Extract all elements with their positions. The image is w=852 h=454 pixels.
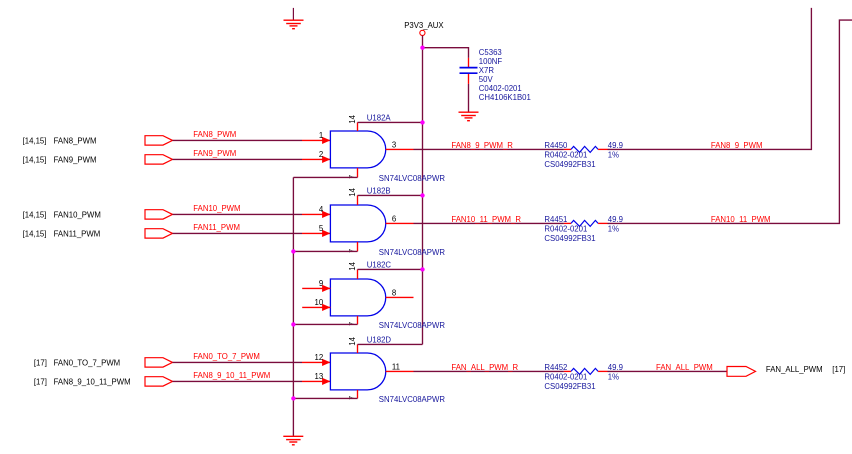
junction P3V3 rail / U182C pin14 <box>420 267 424 271</box>
svg-text:FAN8_9_10_11_PWM: FAN8_9_10_11_PWM <box>193 371 270 380</box>
svg-text:FAN10_PWM: FAN10_PWM <box>193 204 240 213</box>
junction P3V3 rail / U182A pin14 <box>420 120 424 124</box>
wire top ground stub <box>292 8 294 21</box>
svg-text:C0402-0201: C0402-0201 <box>479 84 522 93</box>
svg-text:FAN8_9_PWM: FAN8_9_PWM <box>711 141 763 150</box>
svg-text:8: 8 <box>392 288 396 297</box>
U182A output pin number <box>392 140 396 149</box>
junction P3V3 rail / U182B pin14 <box>420 193 424 197</box>
svg-text:P3V3_AUX: P3V3_AUX <box>404 21 444 30</box>
wire U182B pin 7 to ground bus <box>293 250 357 252</box>
svg-text:FAN8_PWM: FAN8_PWM <box>54 136 97 145</box>
U182B pin 7 number <box>349 249 356 253</box>
wire U182D pin 7 to ground bus <box>293 397 357 399</box>
svg-text:11: 11 <box>392 362 400 371</box>
svg-text:FAN_ALL_PWM: FAN_ALL_PWM <box>656 363 713 372</box>
resistor R4452 <box>564 368 608 374</box>
svg-text:FAN8_9_10_11_PWM: FAN8_9_10_11_PWM <box>54 377 131 386</box>
svg-text:FAN0_TO_7_PWM: FAN0_TO_7_PWM <box>54 358 121 367</box>
svg-text:49.9: 49.9 <box>608 215 623 224</box>
svg-text:49.9: 49.9 <box>608 141 623 150</box>
svg-text:[17]: [17] <box>34 377 47 386</box>
junction ground bus / U182C pin7 <box>291 322 295 326</box>
net label FAN8_9_10_11_PWM <box>193 371 270 380</box>
U182A reference label <box>367 114 392 123</box>
wire FAN10_11_PWM to top right edge <box>608 20 852 223</box>
wire FAN8_9_10_11_PWM <box>173 378 331 385</box>
svg-text:C5363: C5363 <box>479 48 502 57</box>
svg-text:R0402-0201: R0402-0201 <box>544 373 587 382</box>
wire U182C pin 14 to P3V3 rail <box>358 268 423 270</box>
U182A input pin numbers <box>319 131 323 159</box>
net label FAN10_PWM <box>193 204 240 213</box>
U182D reference label <box>367 336 392 345</box>
svg-text:CH4106K1B01: CH4106K1B01 <box>479 93 531 102</box>
wire FAN10_11_PWM_R <box>414 222 564 224</box>
junction ground bus / U182D pin7 <box>291 396 295 400</box>
AND gate U182B <box>330 205 385 242</box>
svg-text:[14,15]: [14,15] <box>23 155 47 164</box>
off-page connector FAN10_PWM <box>23 210 173 220</box>
off-page connector FAN0_TO_7_PWM <box>34 358 173 368</box>
U182C output lead <box>386 296 414 298</box>
net label FAN9_PWM <box>193 149 236 158</box>
U182B pin 7 ground stub <box>357 242 359 252</box>
off-page connector FAN9_PWM <box>23 155 173 165</box>
ground bottom <box>283 436 303 445</box>
svg-text:1%: 1% <box>608 225 619 234</box>
U182A part number SN74LVC08APWR <box>379 174 446 183</box>
U182B part number SN74LVC08APWR <box>379 248 446 257</box>
net label FAN11_PWM <box>193 223 240 232</box>
svg-text:SN74LVC08APWR: SN74LVC08APWR <box>379 248 446 257</box>
svg-text:1%: 1% <box>608 151 619 160</box>
net label FAN8_PWM <box>193 130 236 139</box>
wire FAN8_PWM <box>173 137 331 144</box>
net label FAN0_TO_7_PWM <box>193 352 260 361</box>
wire capacitor branch <box>423 48 469 58</box>
U182C pin 14 power stub <box>357 269 359 279</box>
svg-text:U182B: U182B <box>367 187 391 196</box>
ground top <box>284 20 304 29</box>
svg-text:[14,15]: [14,15] <box>23 210 47 219</box>
svg-text:SN74LVC08APWR: SN74LVC08APWR <box>379 395 446 404</box>
wire U182C pin 7 to ground bus <box>293 323 357 325</box>
wire U182B pin 14 to P3V3 rail <box>358 194 423 196</box>
svg-text:FAN9_PWM: FAN9_PWM <box>193 149 236 158</box>
U182C input pin numbers <box>315 279 324 307</box>
svg-text:FAN10_PWM: FAN10_PWM <box>54 210 101 219</box>
off-page connector FAN11_PWM <box>23 229 173 239</box>
U182D input pin numbers <box>315 353 324 381</box>
svg-text:FAN8_PWM: FAN8_PWM <box>193 130 236 139</box>
svg-text:100NF: 100NF <box>479 57 503 66</box>
svg-text:1%: 1% <box>608 373 619 382</box>
svg-text:6: 6 <box>392 214 396 223</box>
svg-text:SN74LVC08APWR: SN74LVC08APWR <box>379 321 446 330</box>
svg-text:3: 3 <box>392 140 396 149</box>
svg-text:2: 2 <box>319 150 323 159</box>
capacitor C5363 <box>460 58 478 84</box>
svg-text:FAN10_11_PWM: FAN10_11_PWM <box>711 215 771 224</box>
AND gate U182A <box>330 131 385 168</box>
svg-text:U182A: U182A <box>367 114 392 123</box>
svg-text:FAN9_PWM: FAN9_PWM <box>54 155 97 164</box>
U182A pin 14 power stub <box>357 122 359 131</box>
svg-text:[17]: [17] <box>832 365 845 374</box>
U182C input stub pin 9 <box>302 285 330 292</box>
net label FAN8_9_PWM_R <box>451 141 513 150</box>
U182C output pin number <box>392 288 396 297</box>
U182C part number SN74LVC08APWR <box>379 321 446 330</box>
resistor R4450 labels <box>544 141 623 169</box>
resistor R4451 <box>564 220 608 226</box>
ground capacitor <box>459 112 479 121</box>
U182C input stub pin 10 <box>302 304 330 311</box>
U182C pin 14 number <box>348 261 357 270</box>
U182B pin 14 power stub <box>357 195 359 205</box>
svg-text:14: 14 <box>348 114 357 123</box>
wire capacitor to ground <box>468 84 470 112</box>
U182D pin 14 power stub <box>357 344 359 353</box>
U182C reference label <box>367 261 392 270</box>
svg-text:14: 14 <box>348 187 357 196</box>
svg-text:12: 12 <box>315 353 324 362</box>
U182A pin 7 ground stub <box>357 168 359 178</box>
svg-text:R4452: R4452 <box>544 363 567 372</box>
svg-text:R0402-0201: R0402-0201 <box>544 151 587 160</box>
wire FAN_ALL_PWM to connector <box>608 370 728 372</box>
U182D pin 7 number <box>349 396 356 400</box>
U182D output pin number <box>392 362 400 371</box>
net label FAN10_11_PWM <box>711 215 771 224</box>
svg-text:CS04992FB31: CS04992FB31 <box>544 160 595 169</box>
svg-text:R0402-0201: R0402-0201 <box>544 225 587 234</box>
svg-text:FAN0_TO_7_PWM: FAN0_TO_7_PWM <box>193 352 260 361</box>
U182B pin 14 number <box>348 187 357 196</box>
svg-text:X7R: X7R <box>479 66 495 75</box>
off-page connector FAN_ALL_PWM output <box>727 365 845 376</box>
svg-text:FAN10_11_PWM_R: FAN10_11_PWM_R <box>451 215 521 224</box>
svg-text:4: 4 <box>319 205 324 214</box>
svg-text:[14,15]: [14,15] <box>23 136 47 145</box>
wire U182D pin 14 to P3V3 rail <box>358 343 423 345</box>
wire FAN8_9_PWM_R <box>414 148 564 150</box>
svg-text:50V: 50V <box>479 75 494 84</box>
svg-text:FAN_ALL_PWM_R: FAN_ALL_PWM_R <box>451 363 518 372</box>
wire P3V3_AUX vertical rail <box>422 36 424 345</box>
off-page connector FAN8_PWM <box>23 136 173 146</box>
U182C pin 7 ground stub <box>357 316 359 325</box>
net label FAN8_9_PWM <box>711 141 763 150</box>
svg-text:49.9: 49.9 <box>608 363 623 372</box>
svg-text:FAN11_PWM: FAN11_PWM <box>193 223 240 232</box>
svg-text:U182D: U182D <box>367 336 392 345</box>
wire ground bus vertical <box>292 177 294 436</box>
U182D part number SN74LVC08APWR <box>379 395 446 404</box>
svg-text:FAN11_PWM: FAN11_PWM <box>54 229 101 238</box>
wire FAN11_PWM <box>173 230 331 237</box>
svg-text:CS04992FB31: CS04992FB31 <box>544 234 595 243</box>
U182A pin 14 number <box>348 114 357 123</box>
U182C pin 7 number <box>349 322 356 326</box>
off-page connector FAN8_9_10_11_PWM <box>34 377 173 387</box>
wire FAN10_PWM <box>173 211 331 218</box>
svg-text:13: 13 <box>315 372 324 381</box>
svg-text:14: 14 <box>348 261 357 270</box>
U182B reference label <box>367 187 391 196</box>
resistor R4452 labels <box>544 363 623 391</box>
U182A output lead <box>386 148 414 150</box>
wire FAN0_TO_7_PWM <box>173 359 331 366</box>
svg-text:R4451: R4451 <box>544 215 567 224</box>
svg-text:5: 5 <box>319 224 324 233</box>
resistor R4450 <box>564 146 608 152</box>
wire FAN8_9_PWM to top right <box>608 8 812 150</box>
net label FAN10_11_PWM_R <box>451 215 521 224</box>
AND gate U182D <box>330 353 385 390</box>
svg-text:FAN_ALL_PWM: FAN_ALL_PWM <box>766 365 823 374</box>
wire U182A pin 7 to ground bus <box>293 176 357 178</box>
power symbol P3V3_AUX <box>404 21 444 36</box>
svg-text:[17]: [17] <box>34 358 47 367</box>
U182D pin 7 ground stub <box>357 390 359 399</box>
U182A pin 7 number <box>349 175 356 179</box>
svg-text:R4450: R4450 <box>544 141 568 150</box>
U182B output pin number <box>392 214 396 223</box>
svg-text:U182C: U182C <box>367 261 392 270</box>
wire FAN9_PWM <box>173 156 331 163</box>
net label FAN_ALL_PWM_R <box>451 363 518 372</box>
wire U182A pin 14 to P3V3 rail <box>358 121 423 123</box>
svg-text:CS04992FB31: CS04992FB31 <box>544 382 595 391</box>
junction P3V3 rail to capacitor <box>420 46 424 50</box>
svg-text:SN74LVC08APWR: SN74LVC08APWR <box>379 174 446 183</box>
wire FAN_ALL_PWM_R <box>414 370 564 372</box>
net label FAN_ALL_PWM <box>656 363 713 372</box>
svg-text:1: 1 <box>319 131 323 140</box>
U182D output lead <box>386 370 414 372</box>
svg-text:[14,15]: [14,15] <box>23 229 47 238</box>
resistor R4451 labels <box>544 215 623 243</box>
U182B output lead <box>386 222 414 224</box>
AND gate U182C <box>330 279 385 316</box>
capacitor C5363 value labels <box>479 48 531 102</box>
svg-text:FAN8_9_PWM_R: FAN8_9_PWM_R <box>451 141 513 150</box>
U182D pin 14 number <box>348 336 357 345</box>
junction ground bus / U182B pin7 <box>291 249 295 253</box>
svg-text:14: 14 <box>348 336 357 345</box>
U182B input pin numbers <box>319 205 324 233</box>
